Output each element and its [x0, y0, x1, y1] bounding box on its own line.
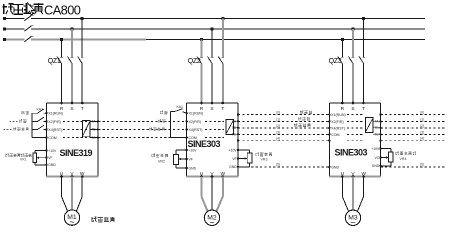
- svg-text:X2(F/R): X2(F/R): [331, 120, 344, 124]
- svg-text:S: S: [351, 106, 354, 112]
- svg-text:+10V: +10V: [229, 148, 238, 152]
- svg-text:X1(RUN): X1(RUN): [48, 112, 63, 116]
- svg-text:(2): (2): [276, 124, 280, 128]
- svg-text:S: S: [210, 106, 213, 112]
- svg-text:VR3: VR3: [261, 158, 268, 162]
- svg-text:VR4: VR4: [400, 157, 407, 161]
- svg-text:VF: VF: [48, 156, 52, 160]
- svg-text:GND: GND: [331, 165, 339, 169]
- svg-text:(2): (2): [420, 124, 424, 128]
- svg-text:SINE303: SINE303: [335, 148, 368, 158]
- svg-text:T: T: [81, 106, 84, 112]
- svg-text:(0): (0): [276, 111, 280, 115]
- svg-text:QZ3: QZ3: [329, 58, 342, 65]
- svg-text:+10V: +10V: [189, 148, 198, 152]
- svg-text:KA2: KA2: [37, 107, 44, 111]
- svg-text:SINE319: SINE319: [60, 148, 93, 158]
- svg-text:X2(F/R): X2(F/R): [48, 120, 61, 124]
- svg-text:TC: TC: [232, 133, 237, 137]
- svg-text:X2(F/R): X2(F/R): [189, 120, 202, 124]
- svg-text:TC: TC: [374, 133, 379, 137]
- svg-text:(4): (4): [276, 137, 280, 141]
- svg-text:(4): (4): [420, 137, 424, 141]
- svg-text:QZ2: QZ2: [188, 58, 201, 65]
- svg-text:(5): (5): [276, 163, 280, 167]
- svg-text:~: ~: [209, 217, 214, 227]
- svg-text:T: T: [221, 106, 224, 112]
- svg-text:VF: VF: [232, 157, 236, 161]
- svg-text:+10V: +10V: [371, 147, 380, 151]
- svg-text:CA800: CA800: [44, 2, 81, 17]
- svg-text:KA1: KA1: [177, 105, 184, 109]
- svg-text:COM: COM: [48, 136, 56, 140]
- svg-text:VR1: VR1: [20, 157, 27, 161]
- svg-text:X4(RST): X4(RST): [189, 128, 203, 132]
- svg-text:(1): (1): [420, 117, 424, 121]
- svg-text:(3): (3): [420, 130, 424, 134]
- svg-text:S: S: [70, 106, 73, 112]
- svg-text:(1): (1): [276, 117, 280, 121]
- svg-text:QZ1: QZ1: [48, 58, 61, 65]
- svg-text:GND: GND: [229, 165, 237, 169]
- svg-text:T: T: [362, 106, 365, 112]
- svg-text:VC: VC: [375, 156, 380, 160]
- svg-text:X1(RUN): X1(RUN): [189, 112, 204, 116]
- svg-text:TB: TB: [232, 126, 236, 130]
- svg-text:GND: GND: [48, 163, 56, 167]
- svg-text:X4(RST): X4(RST): [331, 126, 345, 130]
- svg-text:+10V: +10V: [48, 149, 57, 153]
- svg-text:~: ~: [69, 217, 74, 227]
- svg-text:(0): (0): [420, 111, 424, 115]
- svg-text:(5): (5): [420, 163, 424, 167]
- svg-text:GND: GND: [372, 164, 380, 168]
- svg-text:COM: COM: [331, 133, 339, 137]
- svg-text:VR2: VR2: [158, 159, 165, 163]
- svg-text:R: R: [341, 106, 345, 112]
- svg-text:(3): (3): [276, 130, 280, 134]
- svg-text:TC: TC: [91, 136, 96, 140]
- svg-text:VF: VF: [189, 157, 193, 161]
- svg-text:TB: TB: [374, 126, 378, 130]
- svg-text:X4(RST): X4(RST): [48, 128, 62, 132]
- svg-text:TB: TB: [91, 128, 95, 132]
- svg-text:GND: GND: [189, 166, 197, 170]
- svg-text:~: ~: [350, 217, 355, 227]
- svg-text:X1(RUN): X1(RUN): [331, 113, 346, 117]
